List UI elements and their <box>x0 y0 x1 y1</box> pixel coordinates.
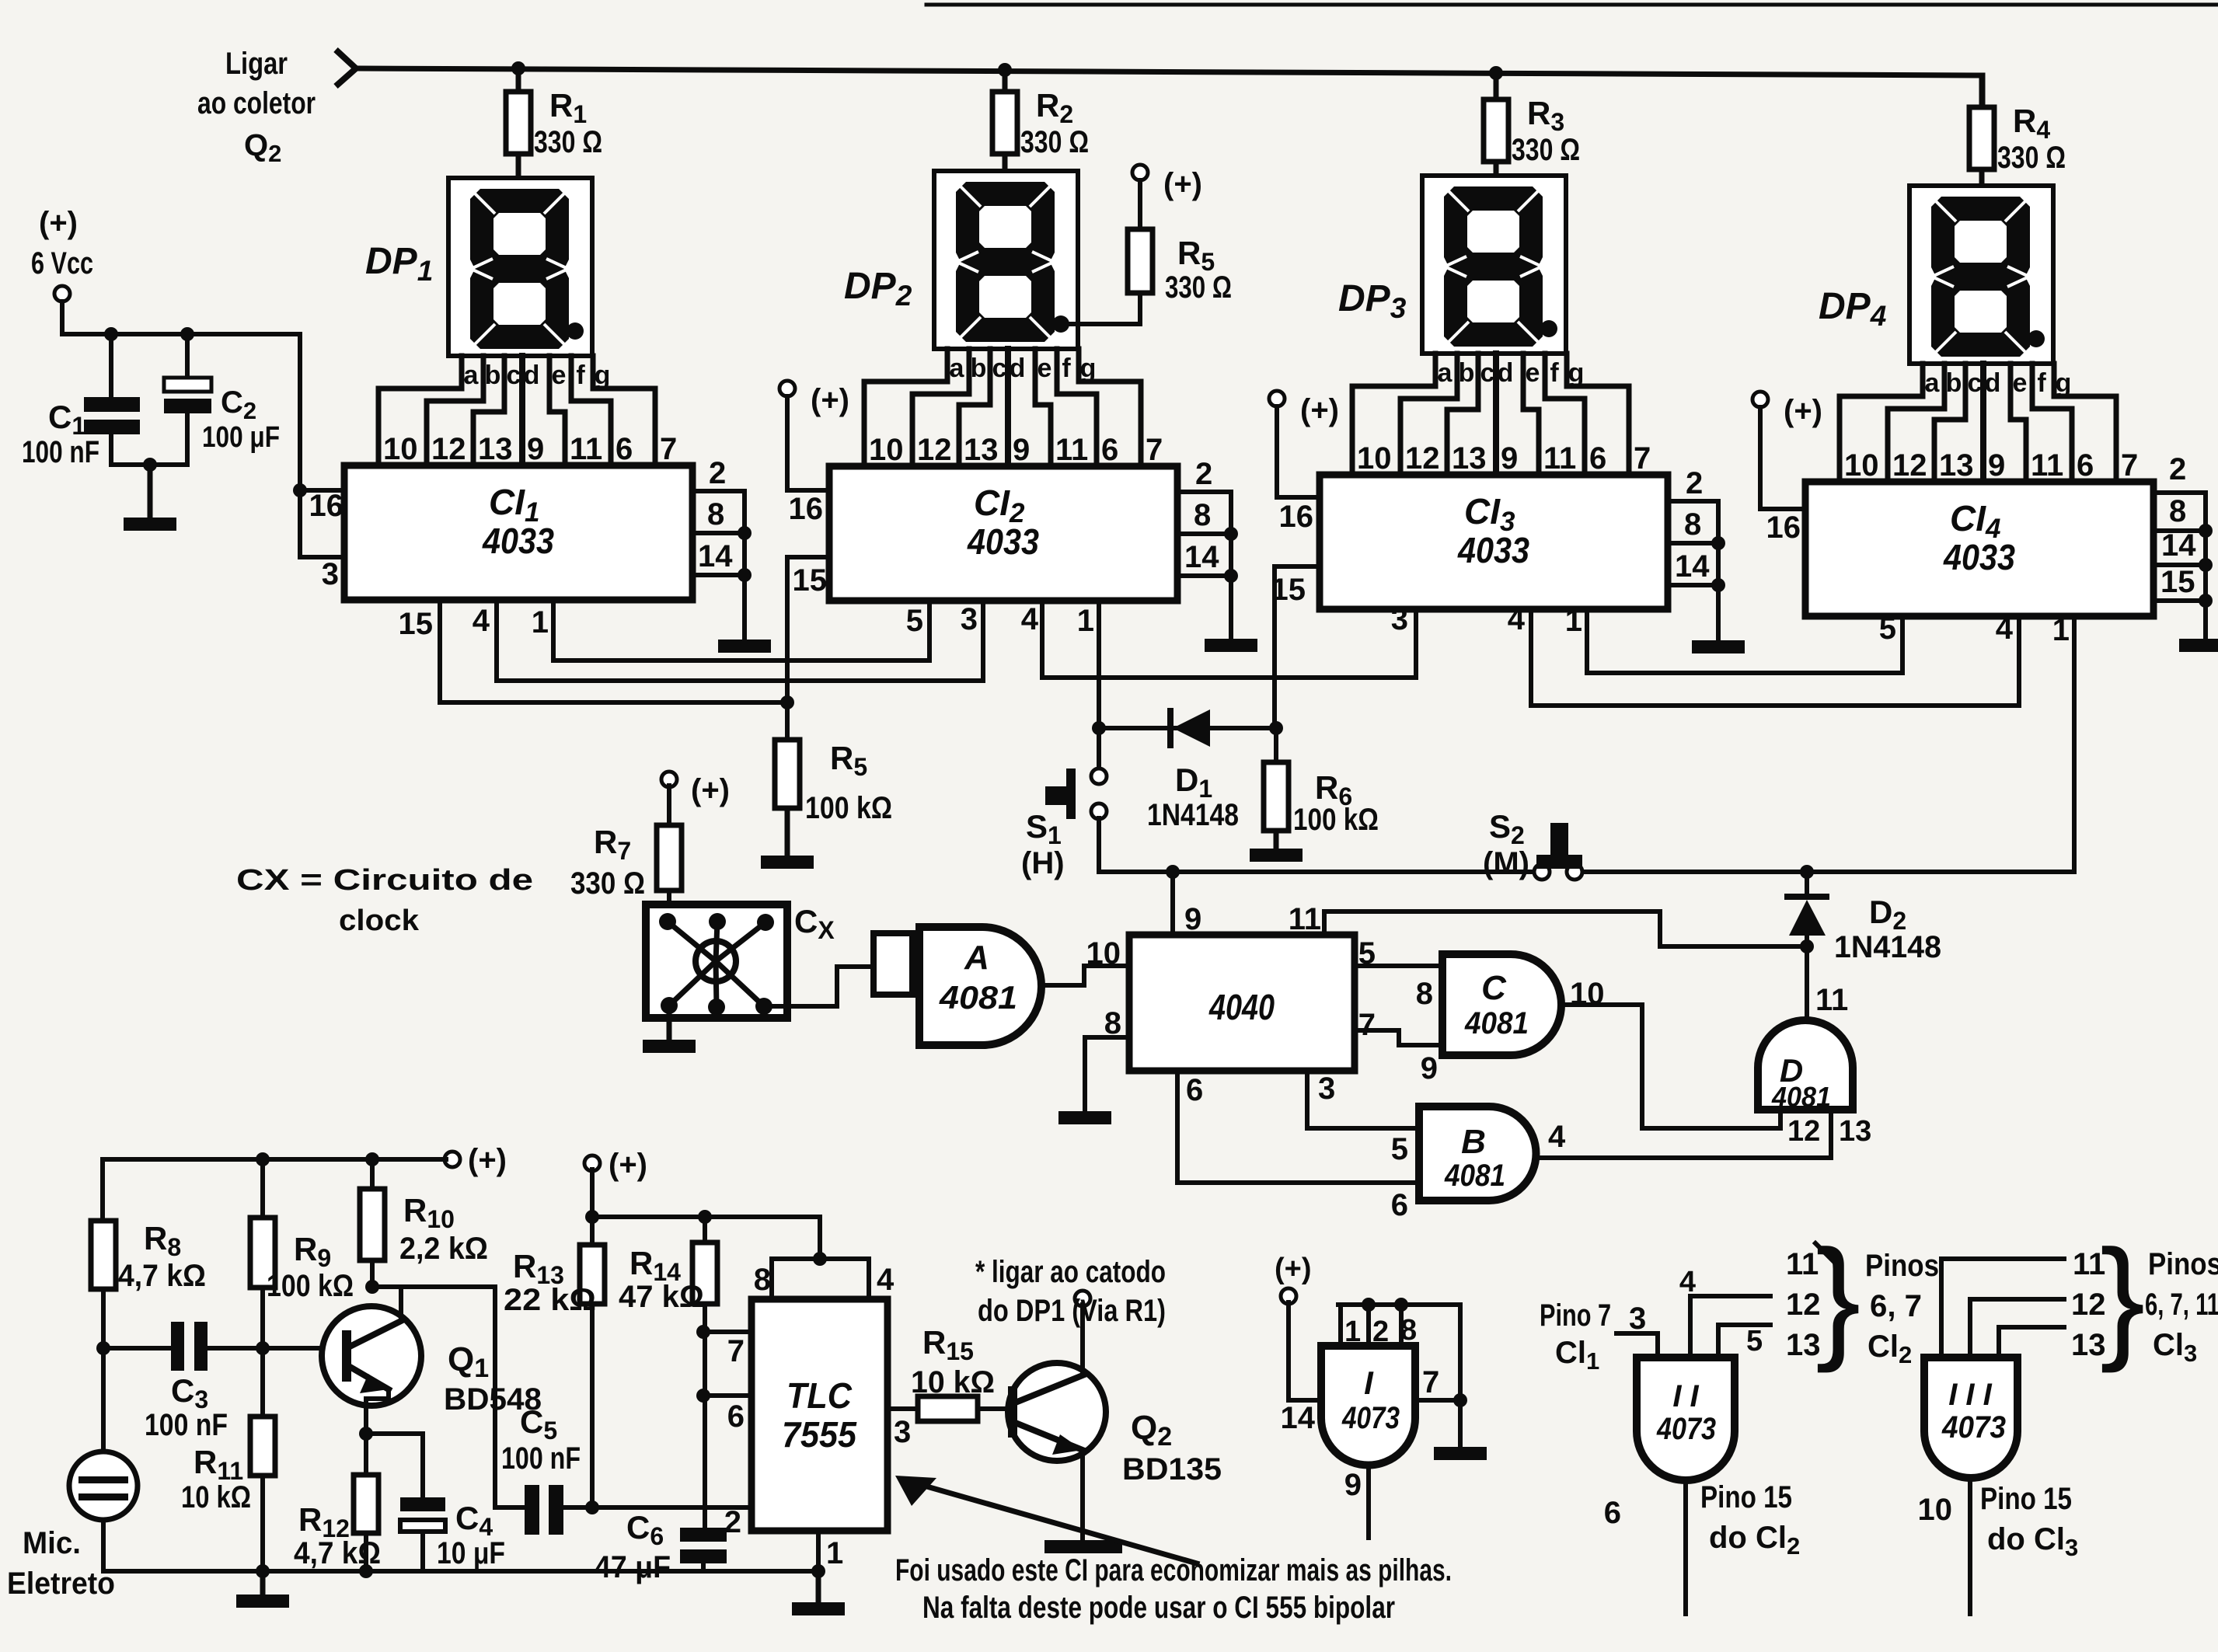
svg-text:4: 4 <box>1679 1266 1696 1298</box>
wire R5 to DP2 decimal point <box>1071 293 1140 324</box>
svg-text:CX = Circuito de: CX = Circuito de <box>236 864 533 897</box>
svg-text:8: 8 <box>1400 1314 1417 1347</box>
transistor Q1 BD548 <box>322 1306 421 1406</box>
svg-text:100 nF: 100 nF <box>22 435 99 469</box>
wires DP2 to CI2 segment fan-out <box>864 349 947 466</box>
wire C5 to 7555 pin 2 <box>563 1505 752 1510</box>
svg-text:9: 9 <box>1501 441 1518 476</box>
svg-text:2,2 kΩ: 2,2 kΩ <box>399 1232 488 1266</box>
node junction top rail stage 2 <box>998 63 1012 77</box>
node Q1 emitter <box>359 1427 373 1441</box>
svg-text:4081: 4081 <box>939 979 1017 1016</box>
svg-text:1: 1 <box>1565 604 1582 638</box>
svg-text:2: 2 <box>1195 457 1212 491</box>
svg-text:11: 11 <box>1289 902 1321 936</box>
resistor R3 <box>1494 73 1499 99</box>
wire: collector supply arrow <box>336 50 356 86</box>
svg-text:* ligar ao catodo: * ligar ao catodo <box>975 1255 1166 1289</box>
svg-text:b: b <box>485 361 501 390</box>
note arrow to 7555 <box>913 1483 1197 1563</box>
svg-text:d: d <box>1010 354 1026 383</box>
svg-text:4: 4 <box>1548 1120 1566 1154</box>
wires DP4 to CI4 segment fan-out <box>1840 364 1923 482</box>
op-amp gate A 4081 AND <box>919 927 1041 1045</box>
svg-text:4040: 4040 <box>1208 987 1275 1027</box>
svg-text:Eletreto: Eletreto <box>7 1567 115 1601</box>
ground CI3 <box>1692 640 1745 653</box>
op-amp gate C 4081 AND <box>1442 954 1561 1055</box>
resistor R13 22k <box>590 1217 595 1245</box>
wire mic supply rail <box>103 1159 446 1221</box>
resistor R5 330 (colon) <box>1128 229 1153 293</box>
node D1 anode / S1 <box>1092 721 1106 735</box>
svg-text:Pino 15: Pino 15 <box>1700 1480 1792 1514</box>
svg-text:(+): (+) <box>811 383 849 417</box>
wire CX to gate A input <box>764 967 874 1006</box>
node D2 / gate D out / 4040 p11 <box>1800 939 1814 953</box>
wire 7555 pin1 to ground <box>816 1531 821 1571</box>
wire gate D pin 11 output <box>1805 946 1809 1020</box>
switch S2 (M) <box>1534 864 1550 880</box>
svg-text:(+): (+) <box>39 206 78 240</box>
wire mic to ground rail <box>101 1520 106 1571</box>
svg-text:e: e <box>2013 368 2028 398</box>
svg-text:2: 2 <box>2169 452 2186 486</box>
svg-text:8: 8 <box>707 497 724 531</box>
display DP4 7-segment <box>1909 186 2053 364</box>
ground R6 <box>1274 831 1279 849</box>
node R5 top <box>780 695 794 709</box>
wire CI3 pin1 to CI4 pin5 bus <box>1587 609 1902 673</box>
svg-text:330 Ω: 330 Ω <box>1020 125 1089 159</box>
ground C1 C2 <box>148 465 153 518</box>
resistor R9 100k <box>260 1159 265 1218</box>
svg-text:330 Ω: 330 Ω <box>1165 270 1232 305</box>
svg-text:(+): (+) <box>1784 394 1822 428</box>
pin 15 CI2 <box>787 555 829 559</box>
wire CI3 pin4 to CI4 pin4 bus <box>1531 609 2019 706</box>
transistor Q2 BD135 <box>1008 1363 1106 1461</box>
svg-text:4073: 4073 <box>1656 1412 1716 1446</box>
svg-text:(+): (+) <box>609 1148 647 1182</box>
svg-text:do Cl3: do Cl3 <box>1987 1522 2078 1561</box>
svg-text:1: 1 <box>826 1536 843 1570</box>
wire gate A output to 4040 pin10 <box>1041 966 1129 985</box>
svg-text:g: g <box>595 361 611 390</box>
svg-text:do Cl2: do Cl2 <box>1709 1521 1800 1560</box>
wire gate C out to gate D pin12 <box>1561 1005 1780 1128</box>
wire CI2 pin1 down to S1/D1 <box>1097 601 1101 769</box>
svg-text:11: 11 <box>1786 1247 1819 1281</box>
svg-text:13: 13 <box>478 432 513 466</box>
node pin6 <box>696 1389 710 1403</box>
wire pin 6 7555 <box>703 1393 752 1398</box>
svg-text:6, 7: 6, 7 <box>1870 1289 1922 1323</box>
svg-text:9: 9 <box>1421 1051 1438 1086</box>
wire gate III pin10 output <box>1968 1480 1972 1614</box>
svg-text:15: 15 <box>793 563 828 598</box>
svg-text:(+): (+) <box>468 1143 507 1177</box>
node R13 top <box>585 1210 599 1224</box>
svg-text:16: 16 <box>1766 511 1801 545</box>
wire CI2 pin4 to CI3 pin3 bus <box>1042 601 1416 678</box>
node R9/R11 <box>256 1341 270 1355</box>
wires gate III pins to 11/12/13 <box>1941 1259 2064 1357</box>
svg-text:330 Ω: 330 Ω <box>534 125 602 159</box>
gate III 4073 AND (pointing down) <box>1924 1357 2017 1478</box>
wire CI4 pin1 to S2 <box>1575 616 2074 872</box>
svg-text:f: f <box>1550 358 1559 388</box>
svg-text:}: } <box>2100 1222 2145 1374</box>
svg-text:14: 14 <box>698 539 733 573</box>
svg-text:12: 12 <box>917 433 952 467</box>
resistor R4 <box>1979 75 1985 107</box>
svg-text:(+): (+) <box>1163 167 1202 201</box>
wire gate I pin7 to ground <box>1458 1305 1463 1447</box>
wire top supply rail <box>357 68 1983 75</box>
IC CI4 4033 <box>1805 482 2153 616</box>
ground R5 <box>785 808 790 856</box>
wire CI1 pin1 to CI2 pin5 bus <box>553 600 929 660</box>
wires DP1 to CI1 segment fan-out <box>378 356 462 465</box>
svg-text:14: 14 <box>2161 528 2196 563</box>
CI4 right pins 2/8/14/15 to ground <box>2153 490 2206 495</box>
svg-text:330 Ω: 330 Ω <box>570 866 645 901</box>
IC TLC 7555 <box>752 1299 888 1531</box>
svg-text:4: 4 <box>1508 602 1526 636</box>
node C2 top <box>180 327 194 341</box>
wire gate II pin6 output <box>1683 1480 1688 1614</box>
capacitor C3 100nF <box>103 1346 171 1351</box>
wire 4040 pin8 to ground <box>1085 1037 1129 1111</box>
resistor R2 <box>1003 70 1008 92</box>
svg-text:b: b <box>1459 358 1475 388</box>
svg-text:100 kΩ: 100 kΩ <box>1293 803 1379 837</box>
svg-text:12: 12 <box>1892 448 1927 483</box>
wire pin 3 7555 to R15 <box>888 1406 918 1411</box>
svg-text:7555: 7555 <box>782 1414 857 1455</box>
wire CI3 pin15 down to D1/R6 node <box>1272 566 1277 728</box>
svg-text:4: 4 <box>1996 612 2014 646</box>
svg-text:f: f <box>2037 368 2046 398</box>
wire 4040 pin7 to gate C pin9 <box>1355 1030 1442 1045</box>
capacitor C5 100nF <box>525 1485 539 1535</box>
svg-text:f: f <box>1062 354 1071 383</box>
svg-text:4: 4 <box>473 604 490 638</box>
svg-text:5: 5 <box>1879 612 1896 646</box>
svg-text:16: 16 <box>1279 500 1314 534</box>
svg-text:8: 8 <box>2169 494 2186 528</box>
svg-text:8: 8 <box>754 1263 771 1297</box>
gate I 4073 AND (pointing down) <box>1321 1346 1415 1466</box>
svg-text:14: 14 <box>1184 540 1219 574</box>
wire down to R4 <box>1980 75 1986 107</box>
wire R9 to R11 through C3 node <box>260 1288 265 1417</box>
svg-text:10: 10 <box>1918 1493 1953 1527</box>
wire CI1 pin4 to CI2 pin3 bus <box>497 600 983 681</box>
wire 4040 pin6 to gate B pin6 <box>1177 1071 1419 1183</box>
svg-text:4073: 4073 <box>1341 1401 1400 1435</box>
wire D1 cathode-anode <box>1099 726 1276 730</box>
svg-text:1: 1 <box>1077 604 1094 638</box>
ground CX <box>667 1005 672 1040</box>
svg-text:3: 3 <box>1391 602 1408 636</box>
terminal (+) R5 330 <box>1132 165 1148 180</box>
svg-text:1: 1 <box>1344 1316 1361 1348</box>
svg-text:Foi usado este CI para economi: Foi usado este CI para economizar mais a… <box>895 1553 1452 1588</box>
svg-text:8: 8 <box>1416 977 1433 1011</box>
resistor R6 100k <box>1274 728 1278 762</box>
svg-text:4033: 4033 <box>1457 530 1529 570</box>
connector block gate A input <box>874 933 912 995</box>
svg-text:9: 9 <box>1988 448 2005 483</box>
svg-text:c: c <box>1480 358 1495 388</box>
node pin7 <box>696 1325 710 1339</box>
wire pin 7 7555 <box>703 1330 752 1334</box>
node R10 top <box>365 1152 379 1166</box>
wire CI2 pin15 to reset bus / R5 <box>785 557 790 740</box>
svg-text:3: 3 <box>894 1415 911 1449</box>
svg-text:c: c <box>507 361 521 390</box>
wire 4040 pin3 to gate B pin5 <box>1307 1071 1419 1128</box>
svg-text:3: 3 <box>322 557 339 591</box>
svg-text:g: g <box>1080 354 1097 383</box>
svg-text:2: 2 <box>1372 1316 1389 1348</box>
svg-text:(+): (+) <box>691 773 730 807</box>
wire C3 to Q1 base <box>208 1346 347 1351</box>
svg-text:7: 7 <box>727 1334 745 1368</box>
svg-text:e: e <box>552 361 567 390</box>
svg-text:}: } <box>1815 1222 1861 1374</box>
svg-text:3: 3 <box>961 602 978 636</box>
CI3 right pins 2/8/14 to ground <box>1668 499 1718 504</box>
node junction top rail stage 1 <box>511 61 525 75</box>
node pin16 CI1 <box>293 483 307 497</box>
svg-text:16: 16 <box>789 492 824 526</box>
svg-text:2: 2 <box>709 456 726 490</box>
svg-text:1N4148: 1N4148 <box>1147 798 1239 832</box>
svg-text:4033: 4033 <box>1943 537 2015 577</box>
svg-text:9: 9 <box>1184 902 1201 936</box>
svg-text:d: d <box>1498 358 1514 388</box>
node C1 top <box>104 327 118 341</box>
svg-text:f: f <box>576 361 585 390</box>
wire 4040 pin11 to D2 node <box>1324 911 1807 946</box>
ground gate I <box>1434 1447 1487 1460</box>
svg-text:I I: I I <box>1672 1379 1699 1413</box>
wire 7555 pins 8 and 4 tie <box>772 1259 869 1299</box>
wire gate B out to gate D pin13 <box>1539 1110 1831 1158</box>
svg-text:4081: 4081 <box>1771 1081 1831 1113</box>
svg-text:5: 5 <box>1391 1132 1408 1166</box>
terminal (+) 7555 <box>584 1155 600 1171</box>
svg-text:12: 12 <box>1787 1115 1820 1148</box>
svg-text:6: 6 <box>1101 433 1118 467</box>
svg-text:10: 10 <box>383 432 418 466</box>
node D1 cathode / R6 <box>1269 721 1283 735</box>
svg-text:6: 6 <box>1186 1073 1203 1107</box>
pin 15 CI3 <box>1275 564 1320 569</box>
terminal (+) CI2 pin16 <box>779 381 795 396</box>
svg-text:9: 9 <box>527 432 544 466</box>
svg-text:6: 6 <box>2077 448 2094 483</box>
svg-text:1: 1 <box>2052 613 2070 647</box>
capacitor C6 47uF <box>680 1528 727 1542</box>
decimal point DP1 <box>567 322 584 340</box>
svg-text:A: A <box>964 939 989 977</box>
svg-text:(H): (H) <box>1021 846 1065 880</box>
svg-text:13: 13 <box>964 433 999 467</box>
gate I pins 1/2/8 tie <box>1338 1305 1343 1346</box>
svg-text:BD135: BD135 <box>1122 1452 1222 1486</box>
svg-text:b: b <box>971 354 987 383</box>
ground CI1 <box>718 640 771 653</box>
switch S1 (H) <box>1091 768 1107 784</box>
svg-text:Na falta deste pode usar o CI: Na falta deste pode usar o CI 555 bipola… <box>922 1591 1395 1625</box>
svg-text:11: 11 <box>1543 441 1576 476</box>
svg-text:6: 6 <box>616 432 633 466</box>
resistor R14 47k <box>703 1217 707 1242</box>
svg-text:14: 14 <box>1675 549 1710 584</box>
svg-text:14: 14 <box>1281 1401 1316 1435</box>
svg-text:16: 16 <box>309 489 344 523</box>
svg-text:8: 8 <box>1194 498 1211 532</box>
decimal point DP3 <box>1540 320 1557 337</box>
wire Q1 collector to C5 <box>372 1287 525 1507</box>
resistor R11 10k <box>250 1417 275 1476</box>
svg-text:a: a <box>464 361 480 390</box>
svg-text:c: c <box>1968 368 1983 398</box>
svg-text:a: a <box>1925 368 1941 398</box>
svg-text:Ligar: Ligar <box>225 47 288 81</box>
CX clock circuit box <box>646 904 787 1018</box>
svg-text:11: 11 <box>1055 433 1088 467</box>
wire R8 to mic <box>101 1289 106 1452</box>
svg-text:10 μF: 10 μF <box>437 1536 505 1570</box>
display DP1 7-segment <box>448 178 592 356</box>
node C5/R13/pin2 <box>585 1500 599 1514</box>
svg-text:I I I: I I I <box>1948 1378 1992 1412</box>
wire S1 to S2 rail <box>1099 818 1542 872</box>
svg-text:ao coletor: ao coletor <box>197 86 316 120</box>
wire supply to CI1 pin16/pin3 <box>300 334 344 557</box>
svg-text:6: 6 <box>727 1399 745 1434</box>
svg-text:Pino 15: Pino 15 <box>1980 1482 2072 1516</box>
diode D1 1N4148 <box>1167 711 1174 745</box>
svg-text:9: 9 <box>1013 433 1030 467</box>
resistor R12 4.7k <box>354 1475 378 1533</box>
svg-text:I: I <box>1364 1364 1374 1401</box>
svg-text:13: 13 <box>1839 1115 1871 1148</box>
svg-text:22 kΩ: 22 kΩ <box>504 1283 596 1317</box>
svg-text:47 kΩ: 47 kΩ <box>619 1280 704 1314</box>
svg-text:e: e <box>1526 358 1540 388</box>
svg-text:Mic.: Mic. <box>23 1526 81 1560</box>
svg-text:c: c <box>992 354 1007 383</box>
svg-text:5: 5 <box>1746 1325 1763 1357</box>
svg-text:(+): (+) <box>1300 393 1339 427</box>
terminal 6Vcc <box>54 286 70 301</box>
IC CI1 4033 <box>344 465 692 600</box>
svg-text:(M): (M) <box>1483 846 1529 880</box>
IC CI3 4033 <box>1320 475 1668 609</box>
svg-text:4: 4 <box>877 1263 895 1297</box>
svg-text:11: 11 <box>570 432 602 466</box>
wire pin 16 CI1 <box>300 488 344 493</box>
resistor R5 100k <box>775 740 800 808</box>
svg-text:11: 11 <box>1815 983 1848 1017</box>
svg-text:10 kΩ: 10 kΩ <box>181 1480 251 1514</box>
display DP2 7-segment <box>934 171 1078 349</box>
svg-text:6 Vcc: 6 Vcc <box>31 246 93 281</box>
svg-text:4033: 4033 <box>967 521 1039 562</box>
svg-text:(+): (+) <box>1275 1253 1312 1285</box>
wire supply to pins 8/4 <box>592 1217 820 1259</box>
svg-text:7: 7 <box>1634 441 1651 476</box>
svg-text:Pinos: Pinos <box>2148 1247 2218 1281</box>
svg-text:clock: clock <box>339 904 420 937</box>
gate II 4073 AND (pointing down) <box>1637 1357 1735 1480</box>
CI2 right pins 2/8/14 to ground <box>1177 490 1231 494</box>
display DP3 7-segment <box>1422 176 1566 354</box>
op-amp gate B 4081 AND <box>1419 1107 1536 1201</box>
pin 11 tick gate II group <box>1815 1243 1833 1260</box>
svg-text:a: a <box>950 354 965 383</box>
svg-text:4081: 4081 <box>1444 1159 1505 1193</box>
capacitor C1 100nF <box>109 334 113 397</box>
svg-text:4081: 4081 <box>1464 1006 1529 1040</box>
ground mic rail <box>260 1571 266 1594</box>
svg-text:4: 4 <box>1021 602 1039 636</box>
wire pino7 CI1 to gate II pin3 <box>1616 1333 1658 1357</box>
svg-text:1N4148: 1N4148 <box>1834 930 1941 964</box>
node D2 cathode on S2 rail <box>1800 865 1814 879</box>
svg-text:10: 10 <box>869 433 904 467</box>
decimal point DP4 <box>2028 330 2045 347</box>
svg-text:12: 12 <box>1405 441 1440 476</box>
svg-text:g: g <box>2056 368 2072 398</box>
node junction top rail stage 3 <box>1489 66 1503 80</box>
ground CI2 <box>1205 639 1257 652</box>
svg-text:7: 7 <box>2121 448 2138 483</box>
svg-text:2: 2 <box>1686 466 1703 500</box>
wire R14 to pins 7/6 and C6 <box>703 1304 707 1528</box>
wire (+) to gate I pin 14 <box>1289 1302 1321 1400</box>
svg-text:1: 1 <box>532 605 549 640</box>
wire gate II pin5 <box>1718 1325 1770 1357</box>
svg-text:6: 6 <box>1604 1496 1621 1530</box>
decimal point DP2 <box>1052 315 1069 333</box>
wire S-rail to 4040 pin 9 <box>1170 872 1175 935</box>
wire supply rail to CI1 <box>62 301 300 334</box>
svg-text:330 Ω: 330 Ω <box>1997 141 2066 175</box>
svg-text:B: B <box>1461 1123 1486 1161</box>
svg-text:3: 3 <box>1629 1302 1646 1336</box>
svg-text:C: C <box>1481 969 1507 1007</box>
IC CI2 4033 <box>829 466 1177 601</box>
svg-text:15: 15 <box>2160 565 2195 599</box>
wire C1 C2 ground node <box>111 462 187 467</box>
node Q1 collector <box>365 1280 379 1294</box>
svg-text:12: 12 <box>431 432 466 466</box>
terminal Q2 collector <box>1075 1291 1090 1306</box>
svg-text:2: 2 <box>724 1505 741 1539</box>
resistor R1 <box>516 68 521 92</box>
svg-text:7: 7 <box>660 432 677 466</box>
IC 4040 counter <box>1129 935 1355 1071</box>
svg-text:7: 7 <box>1146 433 1163 467</box>
node 4040 pin9 <box>1166 865 1180 879</box>
